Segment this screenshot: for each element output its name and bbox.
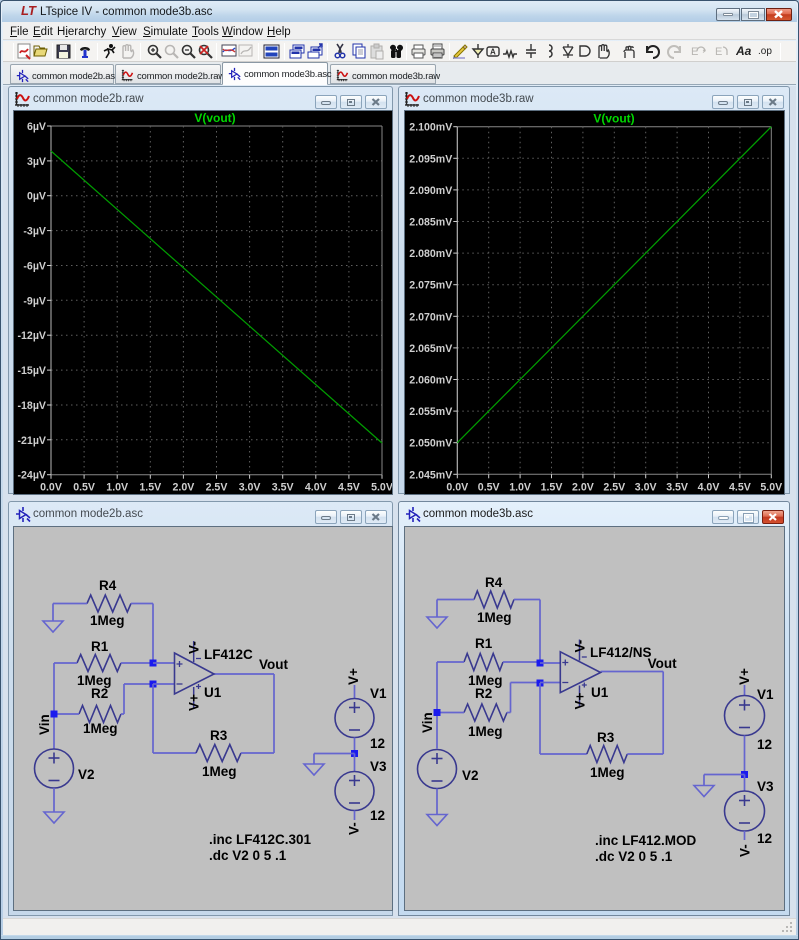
svg-text:V-: V- bbox=[347, 822, 362, 835]
svg-text:4.5V: 4.5V bbox=[729, 481, 751, 493]
svg-text:2.070mV: 2.070mV bbox=[409, 311, 452, 323]
resistor R2 bbox=[464, 704, 507, 721]
svg-text:V+: V+ bbox=[187, 694, 202, 711]
svg-text:2.065mV: 2.065mV bbox=[409, 343, 452, 355]
svg-text:3.5V: 3.5V bbox=[272, 482, 294, 494]
svg-text:E: E bbox=[715, 46, 722, 58]
svg-text:.inc LF412.MOD: .inc LF412.MOD bbox=[595, 833, 697, 848]
svg-text:1Meg: 1Meg bbox=[90, 613, 125, 628]
voltage source V1 bbox=[725, 696, 765, 736]
svg-text:Vout: Vout bbox=[259, 657, 288, 672]
voltage source V1 bbox=[335, 699, 374, 738]
svg-text:V-: V- bbox=[187, 641, 202, 654]
wire mid node to V3 bbox=[744, 775, 746, 792]
wire R4 right lead to node IN+ bbox=[514, 599, 540, 601]
voltage source V2 bbox=[35, 749, 74, 788]
wire node IN+ to op-amp bbox=[540, 662, 561, 664]
wire R1 right lead bbox=[503, 661, 540, 663]
svg-text:.op: .op bbox=[758, 46, 772, 57]
svg-text:3.5V: 3.5V bbox=[666, 481, 688, 493]
svg-text:V2: V2 bbox=[78, 767, 95, 782]
svg-text:R1: R1 bbox=[91, 639, 109, 654]
svg-text:LF412/NS: LF412/NS bbox=[590, 645, 652, 660]
wire R2 left lead bbox=[440, 712, 464, 714]
svg-text:2.085mV: 2.085mV bbox=[409, 217, 452, 229]
svg-text:E: E bbox=[691, 46, 698, 58]
wire Vin vertical bbox=[436, 662, 438, 749]
svg-text:-15µV: -15µV bbox=[18, 365, 46, 377]
svg-text:1.5V: 1.5V bbox=[541, 481, 563, 493]
svg-text:0µV: 0µV bbox=[27, 191, 46, 203]
op-amp V- power pin bbox=[193, 641, 195, 662]
svg-text:.dc V2 0 5 .1: .dc V2 0 5 .1 bbox=[595, 849, 673, 864]
resistor R4 bbox=[474, 591, 514, 608]
wire to R3 left lead bbox=[540, 753, 587, 755]
svg-text:-3µV: -3µV bbox=[23, 226, 46, 238]
svg-text:2.080mV: 2.080mV bbox=[409, 248, 452, 260]
svg-text:2.090mV: 2.090mV bbox=[409, 185, 452, 197]
svg-text:4.0V: 4.0V bbox=[305, 482, 327, 494]
op-amp input plus sign bbox=[177, 661, 183, 667]
resistor R3 bbox=[587, 746, 628, 763]
op-amp input minus sign bbox=[177, 683, 183, 685]
svg-text:1.5V: 1.5V bbox=[139, 482, 161, 494]
wire V+ stub to V1 bbox=[744, 685, 746, 696]
wire Vin vertical bbox=[53, 663, 55, 749]
svg-text:6µV: 6µV bbox=[27, 121, 46, 133]
wire V2 to ground bbox=[436, 789, 438, 815]
svg-text:-24µV: -24µV bbox=[18, 470, 46, 482]
op-amp V+ power pin bbox=[193, 687, 195, 708]
svg-text:V(vout): V(vout) bbox=[194, 111, 235, 125]
svg-text:V-: V- bbox=[738, 844, 753, 857]
svg-text:12: 12 bbox=[757, 831, 772, 846]
svg-text:.inc LF412C.301: .inc LF412C.301 bbox=[209, 832, 312, 847]
junction node IN+ bbox=[537, 660, 544, 667]
svg-text:0.5V: 0.5V bbox=[478, 481, 500, 493]
svg-text:A: A bbox=[490, 48, 496, 57]
svg-text:0.0V: 0.0V bbox=[446, 481, 468, 493]
svg-text:-18µV: -18µV bbox=[18, 400, 46, 412]
wire op-amp output to Vout bbox=[214, 673, 274, 675]
svg-text:1Meg: 1Meg bbox=[202, 764, 237, 779]
junction node IN- bbox=[537, 680, 544, 687]
svg-text:V(vout): V(vout) bbox=[593, 112, 634, 126]
resistor R4 bbox=[87, 595, 131, 612]
svg-text:Aa: Aa bbox=[736, 44, 752, 58]
junction node Vin bbox=[51, 711, 58, 718]
wire op-amp output to Vout bbox=[601, 671, 664, 673]
wire R4 left lead bbox=[437, 599, 474, 601]
wire R4 right lead to node IN+ bbox=[131, 603, 153, 605]
svg-text:-21µV: -21µV bbox=[18, 435, 46, 447]
svg-text:R2: R2 bbox=[475, 686, 492, 701]
wire R1 left lead bbox=[437, 661, 464, 663]
ground of supplies bbox=[304, 764, 324, 775]
svg-text:V2: V2 bbox=[462, 768, 479, 783]
wire R3 right lead up to output bbox=[627, 753, 663, 755]
svg-text:2.055mV: 2.055mV bbox=[409, 406, 452, 418]
svg-text:R2: R2 bbox=[91, 686, 108, 701]
svg-text:2.060mV: 2.060mV bbox=[409, 375, 452, 387]
voltage source V3 bbox=[725, 791, 765, 831]
svg-text:12: 12 bbox=[757, 737, 772, 752]
svg-text:2.095mV: 2.095mV bbox=[409, 153, 452, 165]
wire R2 right lead up to node IN- bbox=[507, 712, 511, 714]
op-amp U1 LF412C bbox=[175, 653, 215, 694]
svg-text:1Meg: 1Meg bbox=[83, 721, 118, 736]
svg-text:2.5V: 2.5V bbox=[206, 482, 228, 494]
wire to R3 left lead bbox=[153, 752, 196, 754]
svg-text:4.0V: 4.0V bbox=[698, 481, 720, 493]
svg-text:V+: V+ bbox=[346, 668, 361, 685]
wire V1 to mid node bbox=[744, 736, 746, 775]
svg-text:5.0V: 5.0V bbox=[371, 482, 392, 494]
svg-text:Vin: Vin bbox=[420, 712, 435, 733]
wire node IN+ to op-amp bbox=[153, 662, 175, 664]
wire V3 bottom stub bbox=[354, 811, 356, 821]
svg-text:4.5V: 4.5V bbox=[338, 482, 360, 494]
svg-text:R1: R1 bbox=[475, 636, 493, 651]
junction supply mid node bbox=[351, 750, 358, 757]
wire R1 left lead bbox=[54, 662, 77, 664]
wire mid node to V3 bbox=[354, 754, 356, 772]
resistor R2 bbox=[79, 706, 121, 723]
svg-text:2.045mV: 2.045mV bbox=[409, 469, 452, 481]
resistor R1 bbox=[464, 654, 503, 671]
voltage source V3 bbox=[335, 772, 374, 811]
svg-text:.dc V2 0 5 .1: .dc V2 0 5 .1 bbox=[209, 848, 287, 863]
svg-text:-12µV: -12µV bbox=[18, 330, 46, 342]
ground below V2 bbox=[427, 815, 447, 826]
wire V2 to ground bbox=[53, 788, 55, 812]
wire R2 left lead bbox=[54, 713, 79, 715]
wire feedback from node IN- down bbox=[152, 684, 154, 753]
wire V+ stub to V1 bbox=[354, 685, 356, 699]
svg-text:Vin: Vin bbox=[37, 714, 52, 735]
wire mid node to ground bbox=[704, 774, 745, 776]
svg-text:1.0V: 1.0V bbox=[106, 482, 128, 494]
op-amp V- power pin bbox=[579, 640, 581, 661]
svg-text:2.050mV: 2.050mV bbox=[409, 438, 452, 450]
junction supply mid node bbox=[741, 771, 748, 778]
op-amp input plus sign bbox=[562, 660, 568, 666]
junction node Vin bbox=[434, 709, 441, 716]
svg-text:R3: R3 bbox=[597, 730, 615, 745]
svg-text:1Meg: 1Meg bbox=[590, 765, 625, 780]
svg-text:V+: V+ bbox=[572, 692, 587, 709]
svg-text:3.0V: 3.0V bbox=[635, 481, 657, 493]
svg-text:2.0V: 2.0V bbox=[572, 481, 594, 493]
wire R4 left lead bbox=[53, 603, 87, 605]
op-amp input minus sign bbox=[562, 682, 568, 684]
svg-text:V3: V3 bbox=[757, 779, 774, 794]
svg-text:1Meg: 1Meg bbox=[468, 724, 503, 739]
wire R1 right lead bbox=[121, 662, 153, 664]
ground below V2 bbox=[44, 812, 64, 823]
svg-text:U1: U1 bbox=[204, 685, 222, 700]
svg-text:V+: V+ bbox=[737, 668, 752, 685]
svg-text:R4: R4 bbox=[485, 575, 503, 590]
wire V3 bottom stub bbox=[744, 831, 746, 840]
resistor R1 bbox=[77, 655, 121, 672]
svg-text:12: 12 bbox=[370, 808, 385, 823]
wire node IN- to op-amp bbox=[540, 682, 561, 684]
svg-text:-9µV: -9µV bbox=[23, 295, 46, 307]
ground for R4 bbox=[52, 604, 54, 622]
svg-text:R3: R3 bbox=[210, 728, 228, 743]
svg-text:V1: V1 bbox=[757, 687, 774, 702]
svg-text:V-: V- bbox=[572, 640, 587, 653]
voltage source V2 bbox=[418, 750, 457, 789]
wire node IN- to op-amp bbox=[153, 683, 175, 685]
svg-text:U1: U1 bbox=[591, 685, 609, 700]
wire R2 right lead up to node IN- bbox=[121, 713, 124, 715]
svg-text:V1: V1 bbox=[370, 686, 387, 701]
svg-text:2.0V: 2.0V bbox=[173, 482, 195, 494]
svg-text:12: 12 bbox=[370, 736, 385, 751]
svg-text:Vout: Vout bbox=[648, 656, 677, 671]
resistor R3 bbox=[196, 745, 241, 762]
svg-text:-6µV: -6µV bbox=[23, 261, 46, 273]
svg-text:3µV: 3µV bbox=[27, 156, 46, 168]
ground for R4 bbox=[436, 600, 438, 618]
op-amp U1 LF412/NS bbox=[560, 652, 600, 693]
svg-text:LF412C: LF412C bbox=[204, 647, 253, 662]
svg-text:2.075mV: 2.075mV bbox=[409, 280, 452, 292]
junction node IN- bbox=[150, 681, 157, 688]
svg-text:V3: V3 bbox=[370, 759, 387, 774]
wire feedback from node IN- down bbox=[539, 683, 541, 754]
ground of supplies bbox=[694, 786, 714, 797]
svg-text:1Meg: 1Meg bbox=[477, 610, 512, 625]
op-amp V+ power pin bbox=[579, 686, 581, 707]
junction node IN+ bbox=[150, 660, 157, 667]
svg-text:R4: R4 bbox=[99, 578, 117, 593]
wire mid node to ground bbox=[314, 753, 355, 755]
svg-text:3.0V: 3.0V bbox=[239, 482, 261, 494]
svg-text:5.0V: 5.0V bbox=[760, 481, 782, 493]
svg-text:0.5V: 0.5V bbox=[73, 482, 95, 494]
wire V1 to mid node bbox=[354, 738, 356, 754]
svg-text:1.0V: 1.0V bbox=[509, 481, 531, 493]
svg-text:2.5V: 2.5V bbox=[603, 481, 625, 493]
svg-text:0.0V: 0.0V bbox=[40, 482, 62, 494]
svg-text:2.100mV: 2.100mV bbox=[409, 122, 452, 134]
wire R3 right lead up to output bbox=[241, 752, 274, 754]
